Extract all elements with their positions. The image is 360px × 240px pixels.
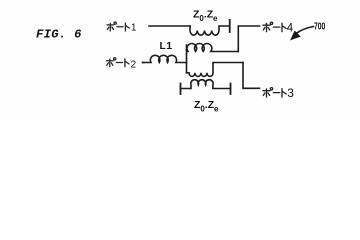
- coupled line U2 line C (top conductor, 4 scallops down): [187, 63, 244, 77]
- wire port1 to coupler1 line A: [149, 25, 190, 27]
- svg-text:1: 1: [131, 23, 136, 34]
- node junction vertical (L1 / line B / line C): [186, 45, 188, 73]
- wire line B to port 4: [238, 26, 259, 52]
- label port2 (katakana po-to 2): [107, 58, 129, 67]
- coupled line U1 end bracket (right bar of line A): [229, 20, 231, 32]
- coupled line U1 line A (top conductor, 4 scallops down): [190, 26, 229, 35]
- label port4 (katakana po-to 4): [263, 22, 286, 32]
- coupled line U2 right bracket: [230, 84, 232, 95]
- svg-text:FIG. 6: FIG. 6: [36, 28, 82, 42]
- coupled line U2 left bracket: [180, 84, 182, 95]
- svg-text:Z0.Ze: Z0.Ze: [193, 10, 218, 23]
- wire line C to port 3: [243, 63, 260, 89]
- svg-text:4: 4: [287, 23, 294, 35]
- inductor L1: [143, 55, 187, 62]
- svg-text:L1: L1: [160, 41, 173, 52]
- coupled line U2 line D (bottom conductor, 3 loops up): [181, 80, 231, 89]
- label port1 (katakana po-to 1): [107, 22, 129, 31]
- svg-text:700: 700: [314, 20, 326, 32]
- label port3 (katakana po-to 3): [263, 88, 286, 97]
- svg-text:2: 2: [131, 59, 137, 70]
- arrowhead of reference arrow 700: [291, 31, 300, 39]
- svg-text:3: 3: [287, 86, 294, 100]
- svg-text:Z0.Ze: Z0.Ze: [194, 100, 219, 114]
- reference arrow 700: [297, 27, 314, 34]
- wire port2 to L1: [143, 62, 144, 64]
- coupled line U1 line B (bottom conductor, 3 loops up): [187, 44, 238, 52]
